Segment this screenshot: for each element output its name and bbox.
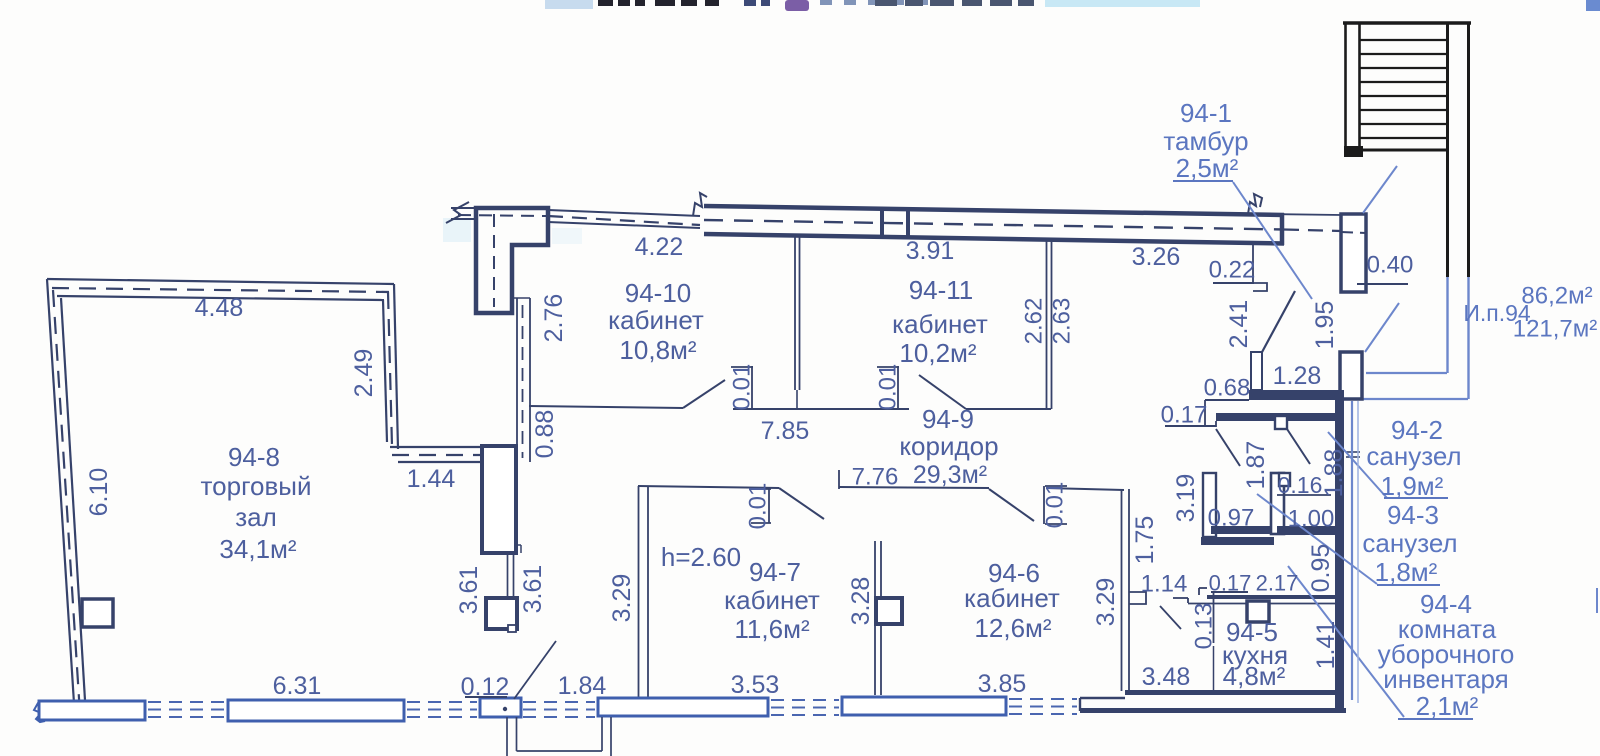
svg-text:0.68: 0.68 [1204,375,1251,402]
svg-text:10,8м²: 10,8м² [619,335,696,365]
svg-text:94-1: 94-1 [1180,98,1232,128]
svg-text:2.62: 2.62 [1021,298,1048,345]
svg-text:0.22: 0.22 [1209,257,1256,284]
svg-text:3.29: 3.29 [608,574,636,623]
svg-text:94-7: 94-7 [749,557,801,587]
svg-text:1.75: 1.75 [1131,516,1159,565]
svg-text:0.16: 0.16 [1278,472,1323,498]
svg-text:3.53: 3.53 [731,671,780,699]
svg-text:86,2м²: 86,2м² [1521,283,1592,310]
svg-text:4,8м²: 4,8м² [1223,661,1286,691]
svg-text:0.13: 0.13 [1191,603,1218,650]
svg-text:0.97: 0.97 [1208,505,1255,532]
svg-text:h=2.60: h=2.60 [661,542,741,572]
svg-text:кабинет: кабинет [964,583,1060,613]
svg-text:0.40: 0.40 [1367,252,1414,279]
svg-text:1.41: 1.41 [1312,621,1340,670]
svg-text:инвентаря: инвентаря [1383,664,1509,694]
svg-text:11,6м²: 11,6м² [734,614,810,644]
svg-text:1.14: 1.14 [1141,571,1188,598]
svg-text:2.49: 2.49 [350,349,378,398]
svg-text:2,5м²: 2,5м² [1176,153,1239,183]
svg-text:7.76: 7.76 [852,464,899,491]
svg-text:3.61: 3.61 [455,566,483,615]
svg-text:зал: зал [235,502,277,532]
svg-text:3.61: 3.61 [519,565,547,614]
svg-text:0.01: 0.01 [875,364,902,411]
svg-text:0.17: 0.17 [1161,402,1208,429]
svg-text:0.95: 0.95 [1307,544,1335,593]
svg-text:0.88: 0.88 [531,410,559,459]
svg-text:94-9: 94-9 [922,404,974,434]
svg-text:1.88: 1.88 [1320,449,1348,498]
svg-text:3.19: 3.19 [1172,474,1200,523]
svg-text:12,6м²: 12,6м² [974,613,1051,643]
svg-text:29,3м²: 29,3м² [913,461,987,489]
svg-text:3.48: 3.48 [1142,663,1191,691]
svg-text:3.26: 3.26 [1132,243,1181,271]
svg-text:1.44: 1.44 [407,465,456,493]
svg-text:94-8: 94-8 [228,442,280,472]
svg-text:6.10: 6.10 [85,468,113,517]
svg-text:1.95: 1.95 [1311,301,1339,350]
svg-text:94-11: 94-11 [909,275,974,305]
svg-text:1,8м²: 1,8м² [1375,557,1438,587]
svg-text:121,7м²: 121,7м² [1513,316,1598,343]
svg-text:10,2м²: 10,2м² [899,338,976,368]
svg-text:санузел: санузел [1366,441,1461,471]
svg-text:2,1м²: 2,1м² [1416,691,1479,721]
svg-text:94-3: 94-3 [1387,500,1439,530]
svg-text:3.29: 3.29 [1092,578,1120,627]
svg-text:4.22: 4.22 [635,233,684,261]
svg-text:1.84: 1.84 [558,672,607,700]
svg-text:2.17: 2.17 [1256,571,1299,596]
svg-text:2.63: 2.63 [1049,298,1076,345]
svg-text:1.00: 1.00 [1288,506,1335,533]
svg-text:2.41: 2.41 [1225,300,1253,349]
svg-text:0.17: 0.17 [1209,571,1252,596]
svg-text:0.01: 0.01 [1042,482,1069,529]
svg-text:кабинет: кабинет [608,305,704,335]
svg-text:3.85: 3.85 [978,670,1027,698]
svg-text:6.31: 6.31 [273,672,322,700]
svg-text:94-10: 94-10 [625,278,692,308]
svg-text:0.12: 0.12 [461,673,510,701]
svg-text:кабинет: кабинет [724,585,820,615]
svg-text:7.85: 7.85 [761,417,810,445]
svg-text:3.91: 3.91 [906,237,955,265]
svg-text:коридор: коридор [899,431,998,461]
svg-text:2.76: 2.76 [540,294,568,343]
svg-text:4.48: 4.48 [195,294,244,322]
svg-text:торговый: торговый [201,471,312,501]
svg-text:кабинет: кабинет [892,309,988,339]
svg-text:0.01: 0.01 [745,483,772,530]
svg-text:тамбур: тамбур [1163,126,1248,156]
svg-text:3.28: 3.28 [847,577,875,626]
svg-text:34,1м²: 34,1м² [219,534,296,564]
svg-text:1.87: 1.87 [1242,441,1270,490]
svg-text:1.28: 1.28 [1273,362,1322,390]
svg-text:1,9м²: 1,9м² [1381,471,1444,501]
svg-text:санузел: санузел [1362,528,1457,558]
svg-text:0.01: 0.01 [729,364,756,411]
